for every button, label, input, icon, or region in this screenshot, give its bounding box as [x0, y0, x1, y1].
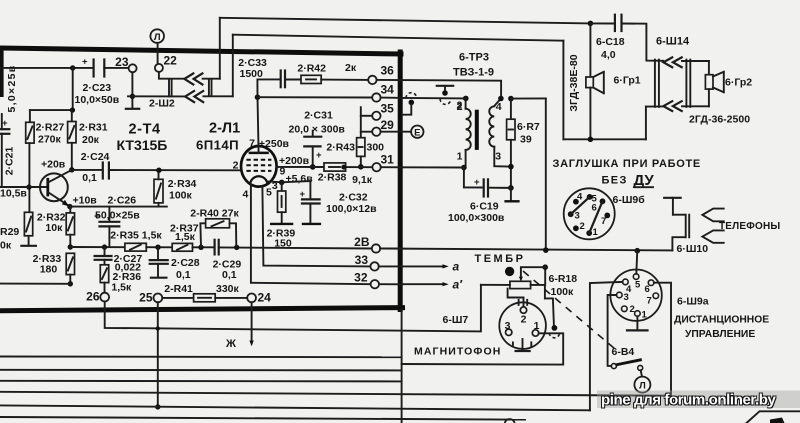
6-Ш7 pin 3	[506, 329, 512, 335]
terminal 25	[154, 294, 163, 303]
svg-text:Л: Л	[154, 32, 161, 43]
watermark band	[597, 391, 800, 409]
svg-text:6·Гр2: 6·Гр2	[725, 77, 752, 89]
6-Ш9а pins	[633, 274, 639, 280]
6-Ш9б pin numbers	[575, 192, 607, 239]
wire: Л stub to terminal 22	[157, 43, 159, 64]
svg-text:7: 7	[601, 216, 606, 227]
wire: pin1 node	[461, 165, 467, 171]
svg-text:7: 7	[647, 296, 652, 307]
svg-text:10,0×50в: 10,0×50в	[75, 94, 120, 106]
svg-text:24: 24	[258, 291, 272, 305]
arrow a'	[403, 283, 444, 285]
bus line 6	[0, 417, 525, 420]
junction	[70, 65, 75, 70]
svg-text:3: 3	[575, 211, 580, 222]
svg-text:1,5к: 1,5к	[111, 281, 132, 293]
connector 2-Ш2 arrows top row	[184, 73, 193, 84]
wire: 26 drop and run to tone pot	[105, 285, 481, 332]
capacitor 2-С28	[157, 247, 159, 260]
connector 6-Ш14 plug pair right	[685, 60, 687, 107]
connector 6-Ш14 arrows	[663, 57, 672, 67]
svg-text:2-Ш2: 2-Ш2	[149, 98, 175, 110]
svg-text:4: 4	[243, 189, 249, 201]
svg-text:МАГНИТОФОН: МАГНИТОФОН	[414, 346, 501, 358]
svg-text:6: 6	[592, 203, 597, 214]
wire: emitter bus to 2В terminal	[70, 246, 125, 248]
svg-text:6·С19: 6·С19	[470, 201, 499, 213]
svg-text:180: 180	[40, 264, 58, 276]
terminal 31	[372, 163, 380, 171]
wire: R7 bottom lead	[510, 140, 512, 188]
svg-text:0,1: 0,1	[82, 172, 97, 184]
svg-text:ЗАГЛУШКА ПРИ РАБОТЕ: ЗАГЛУШКА ПРИ РАБОТЕ	[553, 158, 701, 170]
svg-text:0к: 0к	[0, 240, 12, 252]
plug jumpers	[571, 197, 590, 214]
wire: R31 to collector node	[71, 143, 73, 170]
svg-text:КТ315Б: КТ315Б	[117, 137, 168, 153]
svg-text:ДИСТАНЦИОННОЕ: ДИСТАНЦИОННОЕ	[674, 315, 769, 326]
6-Ш9а pin numbers	[624, 280, 652, 321]
svg-text:10,5в: 10,5в	[0, 188, 27, 200]
wire: divider top row	[30, 109, 73, 111]
wire: output row through jack contacts	[403, 97, 466, 100]
svg-text:2·R42: 2·R42	[297, 63, 326, 75]
terminal 26	[100, 293, 109, 302]
svg-text:+: +	[316, 150, 322, 161]
svg-text:100,0×12в: 100,0×12в	[326, 203, 377, 215]
wire: transformer top to phones bus riser	[511, 97, 546, 99]
svg-text:2ГД-36-2500: 2ГД-36-2500	[689, 114, 750, 126]
capacitor 2-С24	[72, 169, 102, 171]
terminal 36	[368, 76, 376, 84]
resistor 6-R7	[508, 96, 514, 102]
wire: long common bus to phones jack	[380, 249, 672, 251]
svg-text:100к: 100к	[551, 286, 575, 298]
amplifier block outline: top border	[0, 48, 401, 54]
svg-text:32: 32	[354, 271, 368, 285]
svg-text:6-Ш14: 6-Ш14	[656, 36, 690, 48]
svg-text:pine для forum.onliner.by: pine для forum.onliner.by	[601, 392, 777, 409]
wire: second riser	[232, 35, 234, 97]
svg-text:6·Гр1: 6·Гр1	[614, 75, 641, 87]
svg-text:35: 35	[381, 102, 395, 116]
ground under C19 node	[510, 188, 512, 201]
svg-text:ЗГД-38Е-80: ЗГД-38Е-80	[568, 54, 580, 111]
2-С32 plates	[302, 198, 320, 200]
svg-text:БЕЗ: БЕЗ	[602, 175, 628, 187]
tube grid rows	[246, 160, 271, 171]
amplifier block outline: bottom border	[0, 308, 403, 311]
wire: speaker bottom bus	[563, 138, 646, 140]
svg-text:22: 22	[164, 54, 178, 68]
wire: bottom row from 23 node	[128, 95, 185, 97]
svg-text:2-Л1: 2-Л1	[209, 121, 240, 137]
svg-text:2-R40 27к: 2-R40 27к	[190, 208, 239, 220]
svg-text:270к: 270к	[38, 134, 62, 146]
resistor 2-R42	[301, 75, 321, 83]
svg-text:34: 34	[381, 83, 395, 97]
svg-text:2·R43: 2·R43	[326, 142, 355, 154]
bus line 1	[0, 356, 402, 359]
svg-text:10к: 10к	[45, 222, 63, 234]
connector 6-Ш9а	[610, 270, 661, 321]
wire: R27 to base node	[28, 143, 30, 212]
wire: anode riser	[258, 97, 259, 153]
tube cathode arc	[250, 176, 267, 183]
resistor 2-R33	[66, 253, 74, 274]
amplifier block outline: left border stub	[0, 47, 4, 98]
capacitor 2-С23	[92, 60, 94, 77]
resistor 2-R31	[71, 110, 73, 121]
connector 2-Ш2 arrows bottom row	[185, 91, 194, 102]
svg-text:Е: Е	[414, 128, 420, 139]
svg-text:26: 26	[86, 290, 100, 304]
wire: C23 to terminal 23	[104, 67, 128, 69]
wire: heater pin 4 to terminal 32	[251, 185, 371, 285]
terminal 35 with stub	[360, 107, 362, 138]
svg-text:3: 3	[495, 151, 501, 163]
speaker feed node	[588, 21, 594, 27]
knob of 6-R18	[505, 267, 514, 276]
svg-text:2: 2	[233, 160, 239, 172]
wire: C33 branch riser	[257, 79, 279, 97]
svg-text:2: 2	[457, 101, 463, 113]
wire: second long top line	[233, 35, 564, 41]
wire: emitter row	[67, 204, 72, 209]
wiper arrow	[521, 267, 545, 277]
svg-text:1: 1	[534, 320, 540, 332]
svg-text:36: 36	[381, 64, 395, 78]
svg-text:+: +	[2, 118, 8, 129]
svg-text:2·R27: 2·R27	[36, 122, 65, 134]
capacitor 6-С18	[590, 22, 613, 24]
svg-text:6·Ш10: 6·Ш10	[677, 243, 709, 255]
svg-text:2·С26: 2·С26	[108, 195, 137, 207]
svg-text:Ж: Ж	[225, 338, 236, 350]
svg-text:100,0×300в: 100,0×300в	[448, 212, 505, 224]
terminal 33	[370, 262, 378, 270]
svg-text:2к: 2к	[345, 62, 357, 74]
resistor 2-R40 bypass	[200, 223, 205, 247]
svg-text:23: 23	[115, 55, 129, 69]
svg-text:6-Ш7: 6-Ш7	[443, 314, 469, 326]
capacitor 2-С32	[282, 181, 311, 199]
svg-text:25: 25	[139, 291, 153, 305]
svg-text:6-R18: 6-R18	[549, 273, 578, 285]
wire: pin4 to bus line 5 riser	[590, 282, 623, 410]
svg-text:+200в: +200в	[279, 155, 310, 167]
svg-text:+250в: +250в	[259, 138, 290, 150]
resistor 2-R36	[100, 265, 108, 283]
svg-text:0,1: 0,1	[176, 269, 191, 281]
svg-text:+5,6в: +5,6в	[286, 173, 314, 185]
svg-text:2·С21: 2·С21	[4, 147, 16, 176]
svg-text:5,0×25в: 5,0×25в	[6, 65, 18, 113]
svg-text:100к: 100к	[169, 190, 193, 202]
resistor 2-R29 (edge)	[24, 212, 32, 236]
svg-text:1500: 1500	[240, 68, 264, 80]
terminal 29	[361, 131, 372, 133]
svg-text:3: 3	[505, 320, 511, 332]
svg-text:4: 4	[577, 192, 583, 203]
terminal 32	[371, 280, 379, 288]
svg-text:31: 31	[381, 153, 395, 167]
svg-text:2·С24: 2·С24	[81, 151, 110, 163]
resistor 2-R32	[69, 207, 71, 213]
node Л circle (bottom)	[634, 377, 650, 393]
wire: bus dot down to pin5	[636, 251, 637, 274]
speaker 6-Гр2	[708, 61, 710, 75]
svg-text:2·С32: 2·С32	[339, 192, 368, 204]
resistor 2-R43	[357, 138, 365, 157]
wire: heater pin 5 to terminal 33	[262, 187, 370, 267]
wire: 25 drop to bus	[157, 302, 159, 407]
terminal 23	[129, 64, 137, 72]
wire: R18 to tape jack contact	[545, 298, 554, 325]
connector 6-Ш10	[673, 214, 686, 216]
svg-text:+20в: +20в	[41, 159, 66, 171]
svg-text:6-ТР3: 6-ТР3	[459, 52, 489, 64]
arrow a	[403, 265, 444, 267]
resistor 2-R37	[172, 243, 192, 251]
svg-text:1,5к: 1,5к	[175, 231, 196, 243]
svg-text:39: 39	[520, 134, 532, 146]
svg-text:2-R41: 2-R41	[164, 283, 193, 295]
connector 6-Ш7	[499, 302, 546, 349]
wire: bottom row to riser	[203, 95, 232, 97]
svg-text:+: +	[300, 189, 306, 200]
wire: 36 to transformer pin4 riser	[377, 80, 502, 99]
connector 6-Ш9б (blanking plug)	[564, 188, 615, 239]
bus line 2	[0, 369, 402, 372]
mechanical link dashed	[523, 271, 615, 349]
6-Ш9б pins	[573, 199, 579, 205]
svg-text:1: 1	[642, 310, 648, 321]
wire: top row to riser	[203, 78, 220, 80]
wire: 23 drop to chassis	[131, 72, 133, 108]
corner shape bottom right	[747, 411, 800, 423]
svg-text:2·С23: 2·С23	[83, 82, 112, 94]
wire: feedback row exiting left	[0, 283, 70, 285]
tube 2-Л1 6П14П envelope	[241, 146, 277, 187]
wire: screen grid row / resistor 2-R38	[277, 166, 324, 168]
terminal 22	[155, 64, 163, 72]
svg-text:2·R31: 2·R31	[79, 122, 108, 134]
svg-text:а: а	[453, 260, 460, 274]
resistor 2-R35	[125, 243, 146, 251]
svg-text:+: +	[82, 57, 88, 68]
connector 6-Ш14 plug pair left	[654, 60, 656, 107]
6-Ш7 pin 2	[520, 307, 526, 313]
primary winding	[465, 98, 467, 108]
ground bar under 23	[126, 108, 139, 110]
svg-text:9,1к: 9,1к	[352, 174, 373, 186]
amplifier block outline: right border	[398, 52, 403, 310]
6-Ш7 pin 1	[532, 330, 538, 336]
svg-text:50,0×25в: 50,0×25в	[95, 210, 140, 222]
wire: pin3 to switch 6-В4	[608, 295, 617, 366]
svg-text:ТЕМБР: ТЕМБР	[475, 253, 526, 265]
resistor 2-R41	[162, 297, 193, 299]
svg-text:5: 5	[635, 280, 641, 291]
wire: anode row to terminal 34	[258, 96, 373, 98]
svg-text:2·R38: 2·R38	[318, 172, 347, 184]
svg-text:ТЕЛЕФОНЫ: ТЕЛЕФОНЫ	[719, 221, 780, 232]
wire: pin1 to bottom loop	[402, 333, 564, 364]
resistor 2-R27	[29, 110, 31, 122]
capacitor 2-С33	[280, 71, 282, 88]
svg-text:1: 1	[457, 151, 463, 163]
wire: riser to top feed line	[219, 18, 221, 79]
connector 2-Ш2 pair B	[208, 79, 210, 96]
svg-text:+: +	[474, 177, 480, 188]
svg-text:2·С31: 2·С31	[304, 110, 333, 122]
svg-text:+10в: +10в	[73, 195, 98, 207]
phones plug contacts	[702, 209, 723, 222]
wire: C23 node down to divider	[72, 68, 74, 110]
svg-text:20,0 × 300в: 20,0 × 300в	[289, 124, 346, 136]
svg-text:330к: 330к	[216, 283, 240, 295]
svg-text:33: 33	[355, 253, 369, 267]
capacitor 2-С27	[102, 244, 107, 249]
svg-text:2: 2	[580, 221, 585, 232]
svg-text:ТВЗ-1-9: ТВЗ-1-9	[453, 67, 494, 79]
svg-text:6-Ш9а: 6-Ш9а	[677, 296, 709, 308]
svg-text:2: 2	[521, 314, 527, 326]
capacitor 6-С19	[464, 168, 482, 188]
core	[475, 110, 479, 150]
jack contact b (to transformer)	[437, 85, 453, 87]
svg-text:2·С28: 2·С28	[171, 257, 200, 269]
capacitor 2-С26	[108, 207, 110, 222]
svg-text:2В: 2В	[354, 235, 370, 249]
terminal 34	[372, 93, 380, 101]
svg-text:1: 1	[593, 227, 599, 238]
wire: chassis line continuing below block corner	[401, 310, 403, 423]
transistor collector lead	[48, 170, 72, 183]
svg-text:5: 5	[266, 187, 272, 199]
partial mark bottom middle	[505, 419, 515, 423]
svg-text:6: 6	[645, 284, 650, 295]
speaker 6-Гр1	[589, 23, 591, 77]
wire: return riser from top line 2	[562, 41, 564, 140]
wire: 22 stub down to connector row	[159, 72, 184, 79]
bus line 4 to 6-Ш9а pin6	[0, 392, 671, 396]
svg-text:а′: а′	[453, 278, 464, 292]
transistor base bar	[46, 178, 49, 197]
svg-text:7: 7	[249, 138, 255, 150]
node Л terminal circle	[150, 29, 164, 43]
terminal 24	[247, 294, 256, 303]
wire: long top line to speaker node	[220, 18, 591, 24]
ground pin of 6-Ш9а	[636, 316, 638, 330]
connector 2-Ш2 pair A	[168, 79, 170, 96]
jack contact a (to chassis)	[409, 100, 415, 106]
node Е circle	[381, 131, 412, 133]
svg-text:6-С18: 6-С18	[596, 36, 625, 48]
svg-text:2·R34: 2·R34	[168, 178, 197, 190]
svg-text:20к: 20к	[82, 134, 100, 146]
wire: pin6 to bus line 4 riser	[654, 283, 671, 396]
svg-text:29: 29	[381, 118, 395, 132]
bus line 5 to 6-Ш9а pin4	[0, 405, 590, 410]
wire: 24 drop with arrow Ж	[251, 302, 253, 342]
shorting bar above 6-Ш10	[664, 197, 680, 199]
potentiometer 6-R18	[510, 281, 531, 288]
svg-text:2·R35 1,5к: 2·R35 1,5к	[110, 230, 162, 242]
svg-text:6П14П: 6П14П	[196, 138, 239, 153]
terminal 2В	[372, 244, 380, 252]
resistor 2-R39 cathode	[268, 180, 282, 183]
svg-text:0,1: 0,1	[222, 269, 237, 281]
resistor 2-R34	[154, 179, 163, 203]
svg-text:2-Т4: 2-Т4	[129, 122, 161, 138]
secondary winding	[489, 99, 501, 147]
svg-text:150: 150	[274, 238, 292, 250]
ground pin of 6-Ш7	[522, 339, 524, 351]
svg-text:6·R7: 6·R7	[517, 121, 540, 133]
wire: input row to C23	[0, 67, 92, 69]
bus line 3	[0, 380, 402, 383]
svg-text:4: 4	[496, 101, 502, 113]
tube anode bar	[249, 152, 269, 155]
svg-text:УПРАВЛЕНИЕ: УПРАВЛЕНИЕ	[685, 329, 755, 340]
svg-text:R29: R29	[0, 226, 19, 238]
svg-text:6-Ш9б: 6-Ш9б	[613, 194, 646, 206]
capacitor 2-С29	[214, 240, 216, 255]
svg-text:2: 2	[630, 304, 635, 315]
transistor Q 2-Т4	[40, 173, 68, 201]
svg-text:4,0: 4,0	[601, 49, 616, 61]
svg-text:3: 3	[624, 292, 629, 303]
transistor emitter lead with arrow	[48, 192, 70, 206]
svg-text:6-В4: 6-В4	[612, 346, 635, 358]
